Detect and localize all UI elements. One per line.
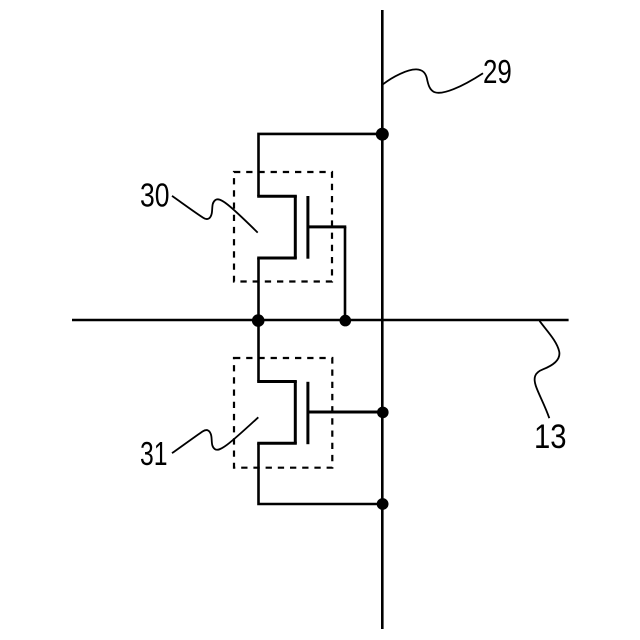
- svg-text:30: 30: [140, 178, 170, 215]
- transistor M30 gate lead: [308, 225, 346, 228]
- junction dot: top wire on line 29: [376, 128, 389, 141]
- label 31: [140, 436, 168, 473]
- wire: vertical bus line 29: [381, 10, 384, 629]
- dashed box of transistor 31: [234, 358, 332, 468]
- label 30: [140, 178, 170, 215]
- wire: M30 gate down to node on line 13: [344, 227, 347, 320]
- transistor M30 source lead: [257, 257, 297, 260]
- wire: node on 13 down to transistor 31 drain: [257, 320, 260, 382]
- svg-text:29: 29: [483, 54, 512, 91]
- junction dot: bottom wire on line 29: [377, 498, 389, 510]
- wire: M31 source down and right to line 29: [259, 443, 383, 504]
- transistor M30 gate bar: [306, 196, 309, 259]
- svg-text:31: 31: [140, 436, 168, 473]
- leader line to label 13: [535, 321, 560, 418]
- dashed box of transistor 30: [234, 172, 332, 282]
- transistor M31 source lead: [257, 442, 297, 445]
- junction dot: transistor stack on line 13: [252, 314, 265, 327]
- junction dot: M30 gate wire on line 13: [340, 315, 352, 327]
- leader line to label 31: [172, 417, 258, 453]
- transistor M31 gate bar: [306, 382, 309, 444]
- transistor M30 drain lead: [257, 195, 297, 198]
- label 13: [534, 418, 567, 456]
- wire: top wire from transistor 30 drain to line 29: [259, 134, 383, 196]
- svg-text:13: 13: [534, 418, 567, 456]
- junction dot: M31 gate lead on line 29: [377, 407, 389, 419]
- transistor M30 channel bar: [294, 196, 297, 259]
- transistor M31 drain lead: [257, 380, 297, 383]
- leader line to label 30: [172, 196, 258, 233]
- transistor M31 channel bar: [294, 381, 297, 444]
- leader line to label 29: [383, 69, 483, 92]
- wire: horizontal line 13: [72, 319, 569, 322]
- wire: M30 source down to node on line 13: [257, 258, 260, 320]
- transistor M31 gate lead to node on line 29: [308, 411, 382, 414]
- label 29: [483, 54, 512, 91]
